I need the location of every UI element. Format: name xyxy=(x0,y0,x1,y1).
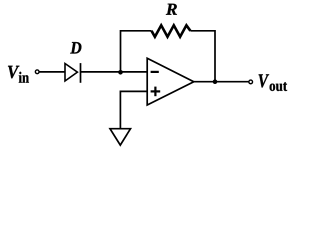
input terminal (open circle) xyxy=(35,70,39,74)
wire feedback left vertical + top to resistor xyxy=(121,31,152,72)
minus input symbol xyxy=(151,71,159,73)
plus input symbol xyxy=(151,87,161,97)
label Vout xyxy=(259,74,288,91)
ground xyxy=(110,129,131,145)
op-amp U1 xyxy=(147,58,194,105)
diode D xyxy=(65,63,81,83)
wire resistor to right vertical down to output node xyxy=(190,31,215,82)
label R xyxy=(166,4,177,15)
wire plus input to ground xyxy=(120,91,147,128)
label Vin xyxy=(8,66,29,83)
output terminal (open circle) xyxy=(249,80,253,84)
junction node A xyxy=(118,70,123,75)
junction node B xyxy=(213,79,218,84)
wire diode to op-amp inverting input xyxy=(81,71,148,73)
wire op-amp output to terminal xyxy=(194,81,249,83)
resistor R xyxy=(152,25,191,37)
wire input to diode xyxy=(39,71,65,73)
label D xyxy=(70,42,81,53)
